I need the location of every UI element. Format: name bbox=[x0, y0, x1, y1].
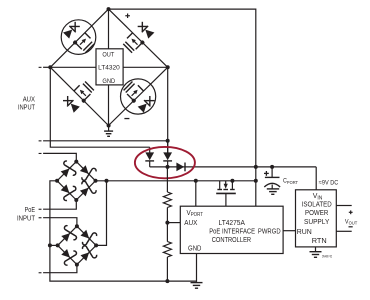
bridge BR1: diamond edges bbox=[57, 162, 95, 200]
svg-text:VOUT: VOUT bbox=[345, 218, 357, 225]
junction AUX2/right-vertex node bbox=[166, 139, 170, 143]
label - (VOUT) bbox=[349, 226, 353, 227]
wire: diamond horizontal diagonal (left vertex to right vertex, behind LT4320 box) bbox=[50, 66, 167, 68]
terminal tick AUX phase 2 bbox=[39, 140, 42, 141]
wire: corner down to supply VIN bbox=[315, 167, 317, 190]
bridge BR1 diode top-right bbox=[77, 162, 97, 182]
wire: PoE A to bridge1 top bbox=[43, 153, 76, 161]
ground (system) bbox=[191, 281, 203, 288]
bridge BR1 diode top-left bbox=[58, 160, 78, 180]
svg-text:GND: GND bbox=[188, 244, 202, 253]
label + (VOUT) bbox=[349, 210, 353, 214]
svg-text:SUPPLY: SUPPLY bbox=[304, 217, 329, 226]
wire: diamond edge top-left bbox=[50, 9, 108, 67]
wire: diamond vertical diagonal (top vertex to bottom vertex, behind LT4320 box) bbox=[108, 9, 110, 125]
highlight ellipse (red) around OR diodes bbox=[135, 147, 195, 178]
svg-text:PWRGD: PWRGD bbox=[258, 227, 281, 236]
junction bottom vertex bbox=[107, 124, 111, 128]
diode D2 (center, anode up) bbox=[163, 141, 172, 167]
svg-text:CONTROLLER: CONTROLLER bbox=[212, 235, 252, 244]
wire: divider column bottom bbox=[166, 257, 168, 281]
junction divider / bottom rail bbox=[165, 279, 169, 283]
svg-text:≈9V DC: ≈9V DC bbox=[319, 180, 339, 187]
wire: bridge2 left vertex stub bbox=[50, 244, 58, 246]
svg-text:INPUT: INPUT bbox=[18, 103, 35, 112]
node - (bridge negative output) bbox=[124, 118, 129, 119]
ground (CPORT) bbox=[267, 189, 279, 194]
bridge BR2 diode bottom-right bbox=[77, 244, 97, 264]
capacitor CPORT (polarized) bbox=[264, 167, 280, 189]
svg-text:CPORT: CPORT bbox=[283, 178, 298, 185]
bridge BR2 diode top-left bbox=[58, 225, 78, 245]
terminal tick PoE pair A bbox=[39, 153, 42, 154]
svg-text:RUN: RUN bbox=[297, 227, 312, 236]
svg-text:INPUT: INPUT bbox=[17, 214, 35, 223]
wire: left vertex down and over to left OR diode bbox=[50, 67, 149, 147]
svg-text:AUX: AUX bbox=[184, 218, 197, 227]
bridge BR1 diode bottom-right bbox=[77, 179, 97, 199]
junctions bridge BR2 vertices bbox=[56, 224, 98, 266]
controller box U2 LT4275A bbox=[180, 206, 283, 253]
junction left column / bridge2 bbox=[48, 243, 52, 247]
diode D1 (left, anode up) bbox=[145, 147, 154, 167]
junction CPORT / OR rail bbox=[270, 165, 274, 169]
ground (bridge negative) bbox=[104, 126, 113, 137]
wire: PoE C to bridge2 top bbox=[43, 218, 77, 227]
svg-text:OUT: OUT bbox=[102, 52, 114, 59]
wire: PWRGD to RUN bbox=[283, 230, 295, 232]
junction right vertex bbox=[166, 65, 170, 69]
supply box U3 isolated power supply bbox=[296, 190, 337, 247]
resistor R1 bbox=[163, 192, 171, 208]
svg-text:GND: GND bbox=[102, 78, 115, 85]
terminal tick PoE pair B bbox=[39, 209, 42, 210]
wire: right vertex down to center OR diode bbox=[167, 67, 169, 152]
wire: AUX terminal 1 stub to left vertex bbox=[43, 66, 50, 68]
highlight circle around M4 bbox=[121, 79, 156, 114]
wire: top rail from bridge + output to right rail down to supply VIN bbox=[109, 9, 256, 167]
terminal tick AUX phase 1 bbox=[39, 67, 42, 68]
wire: OR rail down to IC top pin bbox=[255, 167, 257, 206]
wire: VOUT positive stub bbox=[336, 205, 351, 207]
ground (RTN) bbox=[310, 247, 322, 257]
junction left vertex bbox=[48, 65, 52, 69]
wire: VOUT negative stub bbox=[336, 230, 351, 232]
wire: bridge2 right vertex up to positive rail bbox=[96, 181, 106, 246]
node + (bridge positive output) bbox=[125, 13, 130, 18]
wire: PoE B to bridge1 bottom bbox=[43, 200, 76, 209]
svg-text:RTN: RTN bbox=[312, 236, 327, 245]
junction OR rail / pin riser bbox=[254, 165, 258, 169]
resistor R2 bbox=[163, 242, 171, 258]
wire: AUX terminal 2 to center OR diode bbox=[43, 140, 168, 142]
junction VPORT drop bbox=[194, 179, 198, 183]
svg-text:LT4320: LT4320 bbox=[98, 64, 120, 71]
wire: bridge1 left vertex to left column down to bottom rail bbox=[50, 181, 197, 281]
wire: AUX pin tap bbox=[167, 222, 180, 224]
wire: divider column top bbox=[166, 167, 168, 192]
ideal diode MOSFET M2 (top-right leg) bbox=[122, 21, 155, 54]
junction Q1 source / rail bbox=[230, 179, 234, 183]
svg-text:LT4275A: LT4275A bbox=[219, 218, 246, 227]
ideal diode MOSFET M1 (top-left leg, circled) bbox=[63, 21, 96, 54]
junctions bridge BR1 vertices bbox=[55, 160, 97, 202]
junction top vertex bbox=[107, 7, 111, 11]
svg-text:POWER: POWER bbox=[305, 208, 329, 217]
junction OR rail / divider top bbox=[166, 165, 170, 169]
bridge BR1 diode bottom-left bbox=[58, 181, 78, 201]
wire: diamond edge top-right bbox=[109, 9, 168, 67]
junction positive rail end bbox=[254, 179, 258, 183]
diode D3 (series, anode left) bbox=[176, 163, 185, 172]
wire: VPORT pin drop bbox=[195, 181, 197, 206]
highlight circle around M1 bbox=[61, 20, 96, 55]
ideal diode MOSFET M3 (bottom-left leg) bbox=[62, 80, 95, 113]
bridge BR2: diamond edges bbox=[58, 226, 96, 264]
terminal tick PoE pair D bbox=[39, 272, 42, 273]
bridge BR2 diode top-right bbox=[77, 227, 97, 247]
junction AUX tap bbox=[165, 221, 169, 225]
op-amp controller box U1 LT4320 bbox=[96, 49, 123, 85]
wire: GND pin to bottom rail bbox=[196, 254, 198, 282]
wire: PoE positive rail (bridge outputs to VPORT node) bbox=[96, 180, 256, 182]
junction positive rail / bridge2 riser bbox=[105, 179, 109, 183]
label + (CPORT polarity) bbox=[264, 171, 269, 176]
wire: diamond edge bottom-left bbox=[50, 67, 108, 125]
ideal diode MOSFET M4 (bottom-right leg, circled) bbox=[122, 80, 155, 113]
wire: diamond edge bottom-right bbox=[109, 67, 168, 125]
bridge BR2 diode bottom-left bbox=[58, 246, 78, 266]
wire: PoE D to bridge2 bottom bbox=[43, 265, 77, 273]
terminal tick PoE pair C bbox=[39, 217, 42, 218]
svg-text:DN499 F02: DN499 F02 bbox=[322, 254, 332, 258]
wire: OR output rail to right corner bbox=[150, 166, 317, 168]
wire: divider column middle bbox=[166, 208, 168, 242]
